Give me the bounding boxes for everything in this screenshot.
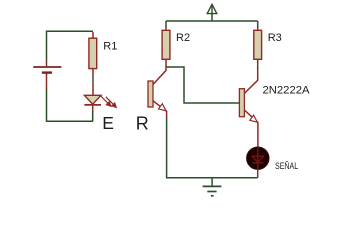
- svg-text:R1: R1: [103, 41, 117, 53]
- svg-text:2N2222A: 2N2222A: [263, 85, 311, 97]
- svg-text:R3: R3: [268, 32, 282, 44]
- svg-text:E: E: [102, 113, 114, 133]
- svg-text:R: R: [136, 114, 149, 134]
- svg-text:SEÑAL: SEÑAL: [275, 161, 298, 171]
- svg-text:R2: R2: [176, 32, 190, 44]
